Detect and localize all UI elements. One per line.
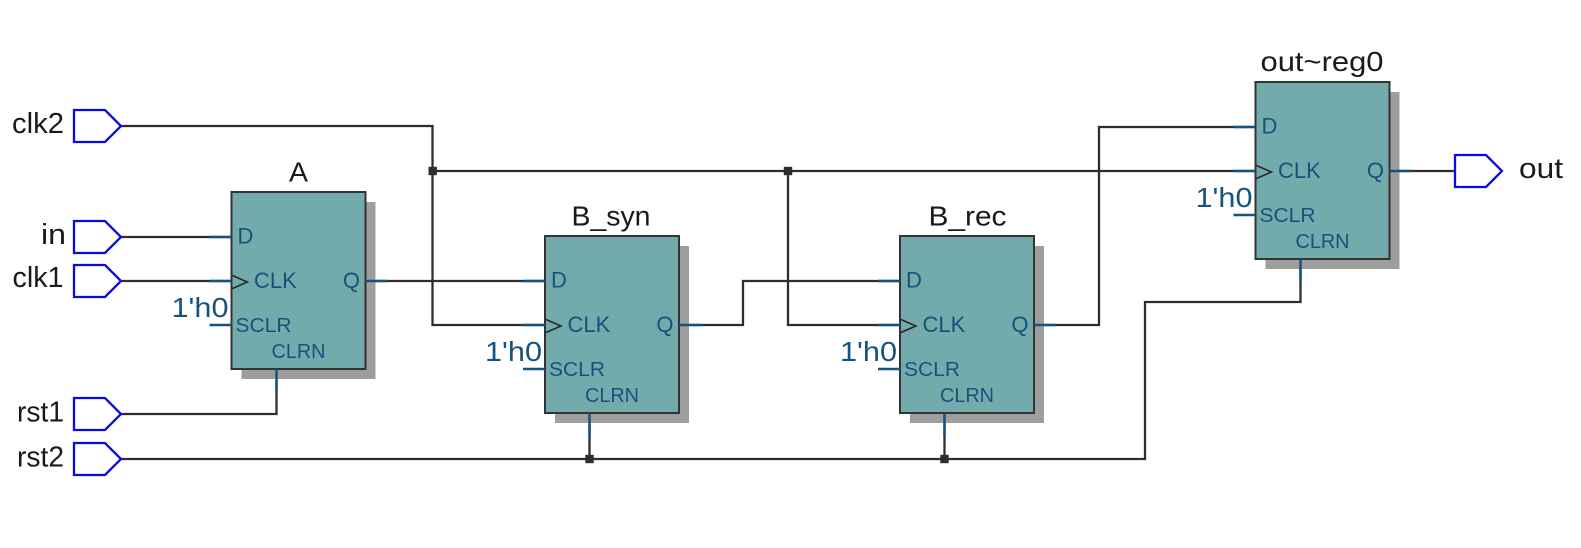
svg-text:SCLR: SCLR <box>236 315 292 337</box>
wire rst2 branch to B_syn.CLRN <box>588 413 590 459</box>
svg-text:A: A <box>289 157 308 188</box>
svg-text:D: D <box>906 268 922 293</box>
flip-flop A <box>172 157 388 394</box>
stub B_syn.Q <box>679 324 701 327</box>
svg-text:out~reg0: out~reg0 <box>1261 46 1384 77</box>
svg-text:clk1: clk1 <box>13 262 64 294</box>
clock wedge out~reg0.CLK <box>1257 166 1272 179</box>
svg-text:D: D <box>1262 114 1278 139</box>
shadow of B_syn <box>555 246 689 423</box>
wire rst2 branch to B_rec.CLRN <box>943 413 945 459</box>
junction rst2/B_syn CLRN at (589.5,459) <box>585 455 593 463</box>
svg-text:SCLR: SCLR <box>549 359 605 381</box>
input port in <box>74 221 121 253</box>
body of out~reg0 <box>1256 82 1390 259</box>
stub B_rec.D <box>878 280 900 283</box>
flip-flop B_syn <box>485 201 701 438</box>
svg-text:CLK: CLK <box>568 312 611 337</box>
svg-text:1'h0: 1'h0 <box>172 292 229 323</box>
shadow of out~reg0 <box>1266 92 1400 269</box>
wire A.Q to B_syn.D <box>366 280 546 282</box>
svg-text:B_syn: B_syn <box>572 201 651 232</box>
wire rst2 net: port along bottom, up to out~reg0.CLRN <box>121 259 1301 459</box>
stub B_rec.SCLR <box>878 368 900 371</box>
stub B_rec.CLRN <box>943 413 946 437</box>
stub B_rec.Q <box>1034 324 1056 327</box>
clock wedge B_rec.CLK <box>901 320 916 333</box>
svg-text:CLK: CLK <box>923 312 966 337</box>
stub A.D <box>210 236 232 239</box>
body of B_syn <box>545 236 679 413</box>
stub out~reg0.D <box>1234 126 1256 129</box>
shadow of B_rec <box>910 246 1044 423</box>
svg-text:rst2: rst2 <box>17 442 64 474</box>
svg-text:Q: Q <box>343 268 360 293</box>
svg-text:rst1: rst1 <box>17 397 64 429</box>
clock wedge A.CLK <box>233 276 248 289</box>
stub out~reg0.CLK <box>1234 170 1256 173</box>
wire out~reg0.Q to out port <box>1390 170 1456 172</box>
svg-text:CLRN: CLRN <box>585 385 639 407</box>
wire in net: port to A.D <box>121 236 232 238</box>
svg-text:CLRN: CLRN <box>272 341 326 363</box>
svg-text:CLRN: CLRN <box>940 385 994 407</box>
stub B_syn.D <box>523 280 545 283</box>
wire clk2 net: port to vertical, down to B_syn CLK <box>121 126 545 325</box>
wire B_rec.Q to out~reg0.D <box>1034 127 1256 325</box>
svg-text:CLK: CLK <box>254 268 297 293</box>
wire clk1 net: port to A.CLK <box>121 280 232 282</box>
input port clk1 <box>74 265 121 297</box>
svg-text:1'h0: 1'h0 <box>485 336 542 367</box>
clock wedge B_syn.CLK <box>546 320 561 333</box>
svg-text:1'h0: 1'h0 <box>840 336 897 367</box>
input port clk2 <box>74 110 121 142</box>
svg-text:D: D <box>238 224 254 249</box>
svg-text:SCLR: SCLR <box>904 359 960 381</box>
svg-text:CLRN: CLRN <box>1296 231 1350 253</box>
svg-text:Q: Q <box>656 312 673 337</box>
stub out~reg0.SCLR <box>1234 214 1256 217</box>
flip-flop out~reg0 <box>1196 46 1412 283</box>
stub A.CLRN <box>275 369 278 393</box>
stub A.Q <box>366 280 388 283</box>
svg-text:in: in <box>41 219 66 251</box>
wire clk2 net: long horizontal to out~reg0 CLK <box>433 170 1256 172</box>
svg-text:1'h0: 1'h0 <box>1196 182 1253 213</box>
stub B_rec.CLK <box>878 324 900 327</box>
stub B_syn.SCLR <box>523 368 545 371</box>
junction clk2/B_rec CLK at (788,171) <box>784 167 792 175</box>
stub B_syn.CLK <box>523 324 545 327</box>
svg-text:B_rec: B_rec <box>929 201 1007 232</box>
shadow of A <box>242 202 376 379</box>
svg-text:clk2: clk2 <box>12 108 64 140</box>
stub A.SCLR <box>210 324 232 327</box>
stub B_syn.CLRN <box>588 413 591 437</box>
wire B_syn.Q to B_rec.D <box>679 281 900 325</box>
stub A.CLK <box>210 280 232 283</box>
input port rst1 <box>74 398 121 430</box>
wire clk2 net: branch down to B_rec CLK <box>788 171 900 325</box>
svg-text:SCLR: SCLR <box>1260 205 1316 227</box>
input port rst2 <box>74 443 121 475</box>
svg-text:Q: Q <box>1011 312 1028 337</box>
body of B_rec <box>900 236 1034 413</box>
svg-text:out: out <box>1519 153 1563 185</box>
wire rst1 net: port to A.CLRN <box>121 369 277 414</box>
stub out~reg0.CLRN <box>1299 259 1302 283</box>
junction clk2/out~reg0 CLK at (431.5,171) <box>429 167 437 175</box>
svg-text:D: D <box>551 268 567 293</box>
junction rst2/B_rec CLRN at (944.5,459) <box>940 455 948 463</box>
svg-text:Q: Q <box>1367 158 1384 183</box>
stub out~reg0.Q <box>1390 170 1412 173</box>
body of A <box>232 192 366 369</box>
flip-flop B_rec <box>840 201 1056 438</box>
output port out <box>1455 155 1502 187</box>
svg-text:CLK: CLK <box>1278 158 1321 183</box>
